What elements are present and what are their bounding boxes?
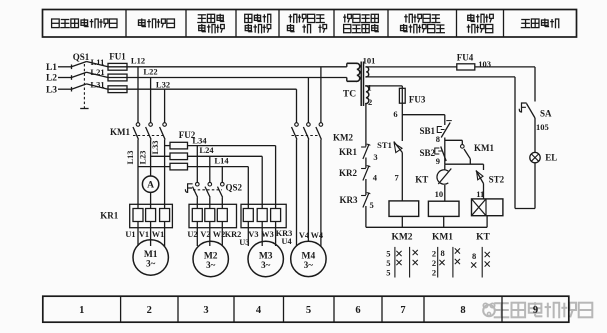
svg-text:A: A bbox=[147, 181, 154, 191]
svg-text:KM1: KM1 bbox=[474, 143, 494, 153]
svg-text:V1: V1 bbox=[139, 230, 149, 239]
svg-text:SB1: SB1 bbox=[419, 126, 435, 136]
svg-text:2: 2 bbox=[432, 258, 436, 268]
svg-text:101: 101 bbox=[363, 56, 376, 66]
svg-text:QS2: QS2 bbox=[226, 183, 243, 193]
svg-text:3~: 3~ bbox=[304, 260, 314, 270]
svg-text:6: 6 bbox=[355, 305, 360, 316]
svg-text:3~: 3~ bbox=[206, 260, 216, 270]
svg-text:U2: U2 bbox=[187, 230, 197, 239]
svg-text:5: 5 bbox=[386, 258, 390, 268]
svg-text:L32: L32 bbox=[156, 79, 170, 89]
svg-text:8: 8 bbox=[472, 251, 476, 261]
svg-text:KR2: KR2 bbox=[339, 168, 358, 178]
svg-text:L31: L31 bbox=[90, 79, 104, 89]
svg-text:5: 5 bbox=[386, 268, 390, 278]
svg-text:8: 8 bbox=[440, 248, 444, 258]
svg-text:W2: W2 bbox=[213, 230, 225, 239]
svg-text:3: 3 bbox=[373, 152, 377, 162]
svg-text:KM1: KM1 bbox=[432, 232, 453, 242]
svg-text:SA: SA bbox=[540, 108, 552, 118]
svg-text:3~: 3~ bbox=[146, 259, 156, 269]
svg-text:5: 5 bbox=[306, 305, 311, 316]
svg-text:1: 1 bbox=[367, 83, 371, 93]
svg-text:U3: U3 bbox=[239, 238, 249, 247]
svg-text:L1: L1 bbox=[46, 63, 57, 73]
svg-text:6: 6 bbox=[393, 109, 397, 119]
svg-text:FU3: FU3 bbox=[409, 95, 426, 105]
svg-text:L3: L3 bbox=[46, 85, 57, 95]
svg-text:5: 5 bbox=[370, 200, 374, 210]
svg-text:L34: L34 bbox=[192, 135, 207, 145]
svg-text:FU1: FU1 bbox=[109, 51, 126, 61]
svg-text:KR3: KR3 bbox=[340, 195, 359, 205]
svg-text:W1: W1 bbox=[152, 230, 164, 239]
svg-text:SB2: SB2 bbox=[419, 148, 435, 158]
svg-text:105: 105 bbox=[536, 122, 549, 132]
svg-text:U1: U1 bbox=[125, 230, 135, 239]
svg-text:2: 2 bbox=[368, 97, 372, 107]
svg-text:KR1: KR1 bbox=[100, 211, 119, 221]
svg-text:KT: KT bbox=[476, 232, 490, 242]
svg-text:ST1: ST1 bbox=[377, 140, 392, 150]
svg-text:W4: W4 bbox=[311, 231, 323, 240]
svg-text:7: 7 bbox=[394, 173, 399, 183]
svg-text:U4: U4 bbox=[282, 237, 292, 246]
svg-text:FU4: FU4 bbox=[457, 52, 474, 62]
svg-text:ST2: ST2 bbox=[489, 174, 505, 184]
svg-text:7: 7 bbox=[400, 305, 405, 316]
svg-text:KR1: KR1 bbox=[339, 147, 358, 157]
svg-text:2: 2 bbox=[147, 305, 152, 316]
svg-text:KM2: KM2 bbox=[391, 232, 412, 242]
svg-text:V2: V2 bbox=[200, 230, 210, 239]
svg-text:EL: EL bbox=[545, 153, 557, 163]
svg-text:3: 3 bbox=[203, 305, 208, 316]
svg-text:8: 8 bbox=[436, 134, 440, 144]
svg-text:L12: L12 bbox=[131, 56, 145, 66]
svg-text:9: 9 bbox=[436, 156, 440, 166]
svg-text:L13: L13 bbox=[126, 151, 135, 165]
svg-text:5: 5 bbox=[386, 249, 390, 259]
svg-text:4: 4 bbox=[256, 305, 262, 316]
svg-text:10: 10 bbox=[435, 189, 444, 199]
svg-text:L33: L33 bbox=[151, 141, 160, 155]
svg-text:103: 103 bbox=[478, 59, 491, 69]
svg-text:L23: L23 bbox=[139, 151, 148, 165]
svg-text:W3: W3 bbox=[261, 230, 273, 239]
svg-text:3~: 3~ bbox=[261, 260, 271, 270]
svg-text:2: 2 bbox=[432, 249, 436, 259]
svg-text:4: 4 bbox=[373, 173, 378, 183]
svg-text:KM2: KM2 bbox=[333, 133, 353, 143]
svg-text:TC: TC bbox=[343, 90, 356, 100]
svg-text:L22: L22 bbox=[143, 67, 157, 77]
svg-text:L24: L24 bbox=[199, 145, 214, 155]
svg-text:1: 1 bbox=[79, 305, 84, 316]
svg-text:KM1: KM1 bbox=[110, 127, 130, 137]
svg-text:L11: L11 bbox=[91, 57, 105, 67]
svg-text:L2: L2 bbox=[46, 74, 57, 84]
svg-text:8: 8 bbox=[460, 305, 465, 316]
svg-text:9: 9 bbox=[533, 305, 538, 316]
svg-text:V3: V3 bbox=[248, 230, 258, 239]
svg-text:L21: L21 bbox=[90, 67, 104, 77]
svg-text:L14: L14 bbox=[214, 156, 229, 166]
svg-text:KT: KT bbox=[415, 175, 428, 185]
svg-text:2: 2 bbox=[432, 268, 436, 278]
svg-text:QS1: QS1 bbox=[73, 52, 90, 62]
svg-text:V4: V4 bbox=[299, 231, 309, 240]
